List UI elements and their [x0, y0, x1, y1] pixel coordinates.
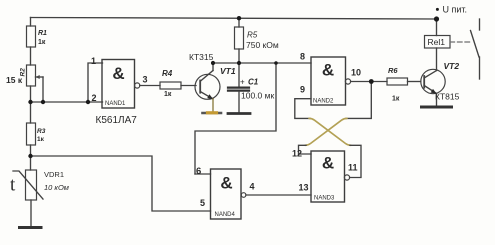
svg-text:NAND3: NAND3: [314, 196, 335, 202]
resistor R5: [235, 27, 244, 49]
svg-text:&: &: [220, 174, 232, 193]
svg-text:1к: 1к: [164, 91, 172, 98]
node pin1/pin2 tie: [86, 100, 90, 104]
svg-text:6: 6: [196, 166, 201, 177]
svg-text:R4: R4: [162, 69, 173, 78]
svg-text:C1: C1: [248, 78, 259, 87]
svg-text:1к: 1к: [37, 136, 45, 143]
wire pin10 node down: [346, 82, 371, 119]
resistor R1: [27, 26, 36, 47]
svg-text:VT2: VT2: [444, 61, 460, 71]
node rail relay: [434, 16, 439, 21]
svg-text:R1: R1: [38, 30, 47, 37]
svg-text:10 кОм: 10 кОм: [44, 183, 69, 192]
wire NAND2 pin9: [295, 99, 311, 119]
ground (VT1 emitter): [203, 112, 222, 115]
NAND1 output bubble pin3: [135, 83, 140, 88]
wire R5 branch: [238, 18, 240, 27]
svg-text:VT1: VT1: [220, 66, 236, 76]
relay contact: [471, 19, 480, 79]
relay contact dashed link: [450, 41, 471, 43]
wire node to NAND1 pin2: [31, 101, 103, 103]
cross wire NAND2.9 to NAND3.11 (olive): [309, 118, 351, 145]
svg-text:NAND4: NAND4: [215, 212, 236, 218]
NAND4 output bubble pin4: [241, 193, 246, 198]
ground (VT2): [422, 106, 452, 109]
resistor R3: [27, 123, 36, 145]
node rail R5: [237, 16, 241, 20]
cross wire NAND2.10 to NAND3.12 (olive): [305, 118, 347, 145]
thermistor VDR1: [13, 170, 43, 200]
svg-text:1: 1: [91, 56, 96, 66]
svg-text:9: 9: [300, 85, 305, 95]
svg-text:4: 4: [250, 182, 255, 192]
wire R6 to VT2 base: [408, 81, 421, 83]
wire R4 to VT1 base: [181, 85, 196, 87]
wire NAND3 pin11 loop: [350, 145, 361, 177]
wire NAND4 pin4 to NAND3 pin13: [246, 194, 311, 196]
svg-text:8: 8: [300, 52, 305, 62]
transistor VT2 KT815: [421, 69, 445, 94]
relay Rel1: [425, 19, 451, 71]
supply terminal bullet: [436, 8, 439, 11]
wire to NAND3 pin12: [299, 145, 312, 154]
svg-text:&: &: [112, 64, 124, 83]
svg-text:13: 13: [299, 183, 309, 193]
wire junction to NAND4 pin5: [31, 156, 211, 211]
wire top supply rail: [31, 18, 437, 20]
svg-text:NAND2: NAND2: [313, 99, 334, 105]
resistor R4: [160, 82, 181, 89]
svg-text:R5: R5: [247, 31, 258, 40]
resistor R6: [387, 78, 408, 85]
node R2 wiper junction: [28, 100, 32, 104]
svg-text:5: 5: [200, 198, 205, 208]
node collector line: [211, 61, 215, 65]
wire R5 to node: [238, 49, 240, 63]
wire R3 to VDR1 junction: [30, 145, 32, 170]
NAND3 output bubble pin11: [344, 175, 349, 180]
node pin10: [369, 79, 374, 84]
svg-text:10: 10: [351, 68, 361, 78]
op NAND3 gate box: [311, 151, 345, 202]
wire VT1 emitter down: [212, 99, 214, 112]
transistor VT1 KT315: [195, 71, 220, 100]
op NAND1 gate box: [102, 60, 135, 109]
wire R2 to junction: [30, 86, 32, 123]
node R3/VDR1: [28, 154, 32, 158]
wire pin10 to R6: [351, 81, 387, 83]
wire VT1 collector up: [212, 63, 214, 71]
wire left branch top: [30, 18, 32, 27]
svg-text:КТ815: КТ815: [435, 92, 460, 102]
svg-text:R3: R3: [37, 128, 46, 135]
svg-text:15 к: 15 к: [6, 75, 23, 85]
svg-text:+: +: [240, 78, 245, 87]
svg-text:R6: R6: [388, 66, 398, 75]
svg-text:U пит.: U пит.: [443, 5, 468, 15]
resistor R2 (trimmer): [27, 65, 44, 102]
ground (VDR1): [20, 226, 42, 229]
wire collector line to NAND2 pin8: [213, 62, 311, 64]
svg-text:750 кОм: 750 кОм: [246, 40, 279, 50]
wire NAND1 pin1 loop: [88, 63, 103, 102]
svg-text:2: 2: [92, 93, 97, 103]
svg-text:12: 12: [292, 149, 302, 159]
ground (C1): [228, 112, 250, 115]
svg-text:100.0 мк: 100.0 мк: [241, 91, 274, 101]
svg-text:3: 3: [143, 75, 148, 85]
wire pin6 stub: [195, 173, 211, 175]
op NAND4 gate box: [211, 169, 242, 219]
NAND2 output bubble pin10: [345, 79, 350, 84]
wire pin3 to R4: [140, 85, 160, 87]
svg-text:VDR1: VDR1: [44, 170, 64, 179]
svg-text:t: t: [10, 175, 16, 196]
svg-text:К561ЛА7: К561ЛА7: [96, 115, 138, 126]
svg-text:11: 11: [348, 163, 358, 173]
wire node down to NAND4 pin6 line: [195, 63, 276, 174]
svg-text:Rel1: Rel1: [428, 37, 446, 47]
svg-text:КТ315: КТ315: [189, 52, 214, 62]
svg-text:1к: 1к: [392, 96, 400, 103]
capacitor C1: [228, 63, 249, 112]
wire VT2 emitter to ground: [436, 94, 438, 107]
svg-text:&: &: [322, 154, 334, 173]
svg-text:1к: 1к: [38, 39, 46, 46]
svg-text:NAND1: NAND1: [105, 101, 126, 107]
svg-text:&: &: [322, 61, 334, 80]
wire R1 to R2: [30, 47, 32, 65]
op NAND2 gate box: [311, 57, 346, 105]
wire VDR1 to ground: [30, 200, 32, 227]
